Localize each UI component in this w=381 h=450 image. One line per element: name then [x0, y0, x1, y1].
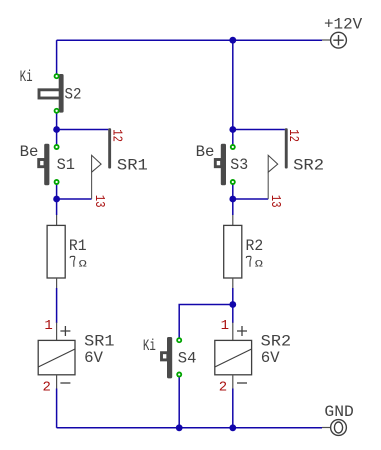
svg-text:2: 2	[42, 380, 50, 396]
wire SR1 pin12	[57, 129, 109, 131]
relay coil SR1	[38, 323, 75, 389]
switch S3 (NO pushbutton)	[215, 144, 226, 185]
wire coil SR2 to bottom rail	[232, 389, 234, 428]
wire coil SR1 to bottom rail	[56, 389, 58, 428]
svg-text:+12V: +12V	[324, 16, 363, 34]
junction right pin13 node	[229, 196, 236, 203]
svg-text:Be: Be	[20, 143, 39, 161]
svg-text:12: 12	[285, 129, 301, 142]
wire S4 to bottom rail	[178, 375, 180, 428]
junction right pin12 node	[229, 126, 236, 133]
resistor R2	[224, 215, 242, 288]
wire S2 to S1	[56, 111, 58, 147]
pin S4 top	[176, 337, 182, 343]
wire left rail above S2	[56, 40, 58, 76]
pin S4 bottom	[176, 372, 182, 378]
wire R1 to coil SR1	[56, 288, 58, 323]
value 7Ω (R2)	[246, 256, 263, 270]
pin S2 top	[54, 73, 60, 79]
svg-text:S3: S3	[230, 156, 248, 174]
resistor R1	[47, 215, 65, 288]
svg-text:R2: R2	[246, 237, 264, 255]
switch S4 (NO pushbutton)	[162, 337, 173, 378]
wire SR1 pin13	[57, 198, 92, 200]
switch S2 (NC pushbutton)	[39, 74, 64, 113]
svg-text:R1: R1	[69, 237, 87, 255]
wire bottom rail	[57, 427, 322, 429]
junction left pin12 node	[53, 126, 60, 133]
svg-text:6V: 6V	[84, 349, 103, 367]
pin S3 top	[230, 144, 236, 150]
svg-text:SR2: SR2	[261, 332, 291, 350]
switch S1 (NO pushbutton)	[39, 144, 50, 185]
svg-text:Ω: Ω	[79, 259, 87, 271]
terminal GND	[322, 420, 346, 436]
relay contact SR2	[268, 128, 287, 199]
svg-text:S1: S1	[57, 156, 75, 174]
svg-text:12: 12	[109, 129, 125, 142]
relay coil SR2	[215, 323, 252, 389]
svg-text:1: 1	[44, 318, 52, 334]
wire R2 to coil SR2	[232, 288, 234, 323]
value 7Ω (R1)	[70, 256, 87, 270]
pin S1 bottom	[54, 179, 60, 185]
pin S3 bottom	[230, 179, 236, 185]
svg-text:Be: Be	[196, 143, 215, 161]
svg-text:1: 1	[221, 318, 229, 334]
pin S1 top	[54, 144, 60, 150]
junction left pin13 node	[53, 196, 60, 203]
svg-text:Ki: Ki	[143, 337, 156, 355]
wire S1 to R1	[56, 182, 58, 215]
wire SR2 pin12	[233, 129, 285, 131]
svg-text:SR1: SR1	[117, 156, 148, 174]
junction coil SR2 bottom	[229, 424, 236, 431]
svg-text:SR2: SR2	[293, 156, 324, 174]
svg-text:2: 2	[219, 380, 227, 396]
wire right rail upper	[232, 40, 234, 147]
svg-text:Ω: Ω	[255, 259, 263, 271]
junction top right	[229, 37, 236, 44]
wire branch to S4	[179, 305, 233, 341]
svg-text:GND: GND	[324, 403, 353, 421]
junction R2 to S4 branch	[229, 301, 236, 308]
relay contact SR1	[92, 128, 112, 199]
wire top rail	[57, 39, 322, 41]
svg-text:Ki: Ki	[20, 68, 33, 86]
wire SR2 pin13	[233, 198, 268, 200]
svg-text:6V: 6V	[261, 349, 280, 367]
svg-text:S4: S4	[178, 350, 197, 368]
svg-text:SR1: SR1	[84, 332, 114, 350]
pin S2 bottom	[54, 108, 60, 114]
svg-text:13: 13	[91, 195, 107, 208]
svg-text:S2: S2	[65, 86, 82, 104]
terminal +12V	[322, 32, 346, 48]
wire S3 to R2	[232, 182, 234, 215]
svg-text:13: 13	[267, 195, 283, 208]
junction S4 bottom	[176, 424, 183, 431]
